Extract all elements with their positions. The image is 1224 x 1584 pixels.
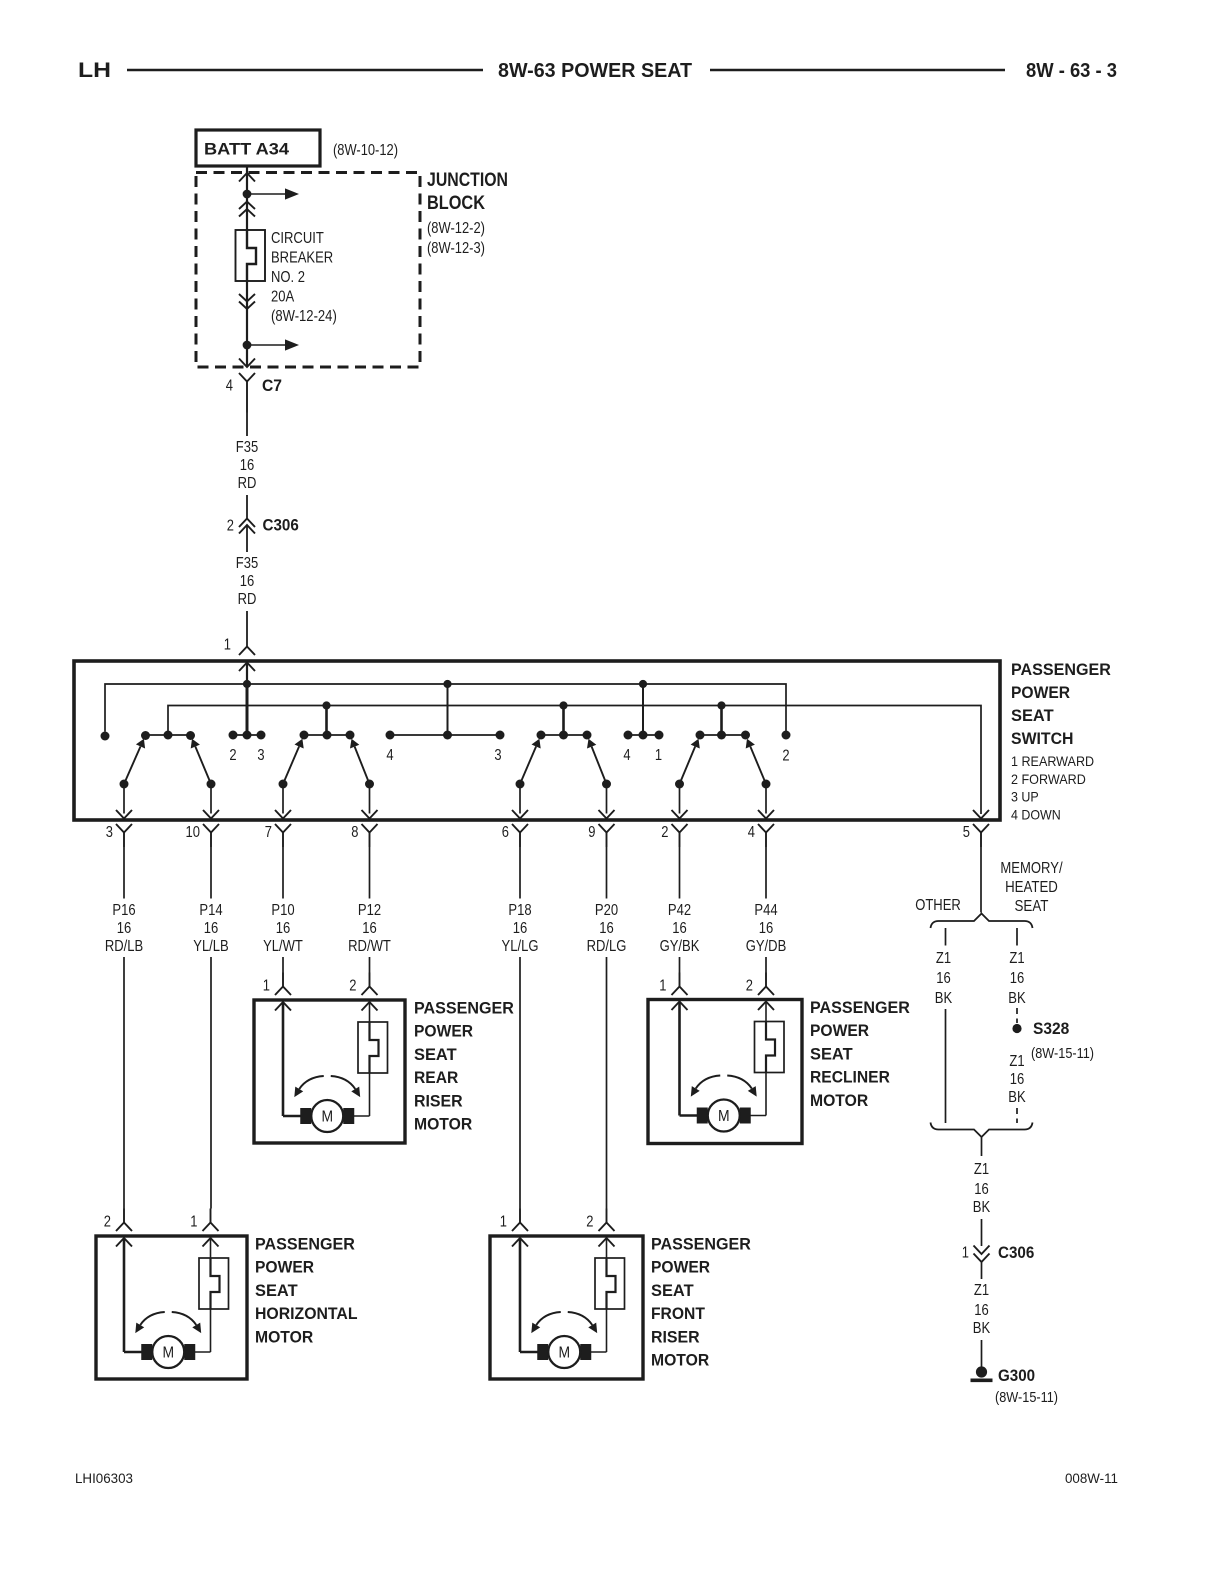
svg-text:OTHER: OTHER: [915, 897, 961, 914]
double chevron connector (junction block top): [239, 202, 255, 210]
svg-text:2 FORWARD: 2 FORWARD: [1011, 771, 1086, 787]
bus tap to contact 2-3 trio: [246, 684, 249, 735]
bus node B: [443, 680, 451, 688]
switch C wiper to pin 9: [602, 780, 611, 789]
svg-text:MEMORY/: MEMORY/: [1000, 860, 1063, 877]
svg-text:RD/WT: RD/WT: [348, 938, 391, 955]
svg-text:M: M: [718, 1108, 730, 1125]
svg-text:(8W-10-12): (8W-10-12): [333, 142, 398, 159]
svg-text:RD/LG: RD/LG: [587, 938, 627, 955]
svg-text:RD: RD: [238, 591, 257, 608]
svg-text:PASSENGER: PASSENGER: [255, 1235, 355, 1254]
wire P20 upper segment: [606, 847, 608, 899]
svg-text:P18: P18: [508, 902, 531, 919]
svg-text:LH: LH: [78, 59, 111, 82]
switch pin 9 connector: [599, 824, 615, 833]
wire P14 upper segment: [210, 847, 212, 899]
svg-text:M: M: [162, 1345, 174, 1362]
wire to C306: [246, 495, 248, 519]
svg-text:16: 16: [1010, 970, 1025, 987]
svg-text:2: 2: [227, 518, 234, 535]
svg-text:16: 16: [240, 573, 255, 590]
svg-text:P42: P42: [668, 902, 691, 919]
svg-text:Z1: Z1: [974, 1161, 989, 1178]
svg-text:SEAT: SEAT: [1011, 706, 1054, 725]
common bus node A: [322, 701, 330, 709]
switch feed bus: [105, 684, 786, 732]
svg-text:Z1: Z1: [1009, 950, 1024, 967]
svg-text:M: M: [558, 1345, 570, 1362]
svg-text:16: 16: [936, 970, 951, 987]
motor pin 2 connector: [362, 987, 378, 996]
svg-text:Z1: Z1: [1009, 1053, 1024, 1070]
arrow into BATT A34: [239, 173, 255, 182]
svg-text:16: 16: [672, 920, 687, 937]
svg-text:POWER: POWER: [255, 1258, 314, 1277]
svg-text:RISER: RISER: [414, 1091, 463, 1110]
wire to motor (long): [606, 957, 608, 1209]
passenger power seat recliner motor right wire: [765, 1002, 767, 1022]
switch pin 4 connector: [758, 824, 774, 833]
svg-text:HEATED: HEATED: [1005, 879, 1058, 896]
passenger power seat rear riser motor right wire: [369, 1002, 371, 1022]
svg-text:MOTOR: MOTOR: [810, 1091, 868, 1110]
svg-text:P20: P20: [595, 902, 619, 919]
passenger power seat rear riser motor rotation arrows: [299, 1076, 324, 1089]
passenger power seat rear riser motor circuit breaker: [358, 1022, 388, 1073]
motor pin 1 connector: [203, 1223, 219, 1232]
svg-text:16: 16: [513, 920, 528, 937]
pin 5 exit chevron: [973, 810, 989, 819]
svg-text:2: 2: [349, 978, 356, 995]
dashed wire from splice: [1016, 1108, 1018, 1123]
switch C contact row: [541, 734, 587, 736]
contact trio 4-1: [628, 734, 659, 736]
svg-text:5: 5: [963, 824, 970, 841]
wire F35 16 RD (upper): [246, 413, 248, 437]
wire Z1 other branch upper: [945, 928, 947, 946]
common bus node B: [559, 701, 567, 709]
svg-text:SEAT: SEAT: [255, 1281, 298, 1300]
svg-text:F35: F35: [236, 555, 258, 572]
svg-text:M: M: [321, 1109, 333, 1126]
passenger power seat horizontal motor box: [96, 1236, 247, 1379]
switch A wiper to pin 3: [120, 780, 129, 789]
svg-text:16: 16: [276, 920, 291, 937]
svg-text:P12: P12: [358, 902, 381, 919]
passenger power seat front riser motor circuit breaker: [595, 1258, 625, 1309]
svg-text:20A: 20A: [271, 289, 295, 306]
svg-text:008W-11: 008W-11: [1065, 1471, 1118, 1486]
svg-text:4 DOWN: 4 DOWN: [1011, 807, 1061, 823]
svg-text:1 REARWARD: 1 REARWARD: [1011, 753, 1094, 769]
wire to motor: [282, 957, 284, 973]
svg-text:7: 7: [265, 824, 272, 841]
wire to motor (long): [210, 957, 212, 1209]
svg-text:POWER: POWER: [810, 1021, 869, 1040]
switch B contact row: [304, 734, 350, 736]
svg-text:4: 4: [623, 747, 631, 764]
passenger power seat switch box: [74, 661, 1000, 820]
svg-text:GY/DB: GY/DB: [746, 938, 787, 955]
motor pin 2 connector: [758, 987, 774, 996]
switch C wiper to pin 6: [516, 780, 525, 789]
svg-text:16: 16: [204, 920, 219, 937]
bus tap to contact 4-1 trio: [642, 684, 644, 735]
wire P42 upper segment: [679, 847, 681, 899]
bus tap to contact 4-3 trio: [447, 684, 449, 735]
passenger power seat front riser motor right wire: [606, 1238, 608, 1258]
passenger power seat recliner motor rotation arrows: [696, 1076, 721, 1089]
svg-text:POWER: POWER: [414, 1022, 473, 1041]
svg-text:(8W-12-24): (8W-12-24): [271, 308, 337, 325]
passenger power seat recliner motor box: [648, 1000, 802, 1144]
svg-text:RD: RD: [238, 475, 257, 492]
svg-text:POWER: POWER: [651, 1258, 710, 1277]
svg-text:SEAT: SEAT: [810, 1044, 853, 1063]
wire P18 upper segment: [519, 847, 521, 899]
svg-text:RD/LB: RD/LB: [105, 938, 143, 955]
passenger power seat rear riser motor box: [254, 1000, 405, 1143]
svg-text:P14: P14: [199, 902, 223, 919]
passenger power seat rear riser motor pin chevrons: [275, 1002, 291, 1011]
svg-text:(8W-15-11): (8W-15-11): [1031, 1045, 1094, 1062]
svg-text:Z1: Z1: [974, 1282, 989, 1299]
connector C7: [239, 373, 255, 382]
wire pin 5 to split: [980, 847, 982, 913]
switch B wiper to pin 8: [365, 780, 374, 789]
splice S328: [1012, 1024, 1021, 1033]
passenger power seat horizontal motor left wire: [123, 1238, 126, 1352]
switch A wiper to pin 10: [207, 780, 216, 789]
passenger power seat horizontal motor rotation arrows: [140, 1312, 165, 1325]
header rule left: [127, 69, 483, 71]
wire to motor: [765, 957, 767, 973]
switch pin 8 connector: [362, 824, 378, 833]
svg-text:3 UP: 3 UP: [1011, 789, 1039, 805]
wire to G300: [981, 1340, 983, 1367]
ground G300: [976, 1366, 987, 1377]
svg-text:BLOCK: BLOCK: [427, 193, 485, 214]
junction block dashed box: [196, 173, 420, 368]
svg-text:SEAT: SEAT: [414, 1045, 457, 1064]
svg-text:P44: P44: [754, 902, 778, 919]
svg-text:16: 16: [759, 920, 774, 937]
switch D contact row: [700, 734, 746, 736]
svg-text:1: 1: [659, 978, 666, 995]
passenger power seat front riser motor motor M: [537, 1344, 548, 1360]
bus node A: [243, 680, 251, 688]
passenger power seat horizontal motor motor M: [141, 1344, 152, 1360]
svg-text:C306: C306: [263, 517, 299, 535]
battery feed box BATT A34: [196, 130, 320, 166]
svg-text:C7: C7: [262, 376, 282, 395]
wire P10 upper segment: [282, 847, 284, 899]
svg-text:SEAT: SEAT: [651, 1281, 694, 1300]
wire P44 upper segment: [765, 847, 767, 899]
svg-text:8W-63 POWER SEAT: 8W-63 POWER SEAT: [498, 60, 692, 82]
contact trio 2-3: [233, 734, 261, 736]
svg-text:16: 16: [974, 1302, 989, 1319]
svg-text:F35: F35: [236, 439, 258, 456]
svg-text:6: 6: [502, 824, 509, 841]
svg-text:JUNCTION: JUNCTION: [427, 170, 508, 191]
switch D wiper to pin 2: [675, 780, 684, 789]
switch pin 5 connector: [973, 824, 989, 833]
wire Z1 memory branch upper: [1016, 928, 1018, 946]
svg-text:16: 16: [599, 920, 614, 937]
svg-text:2: 2: [661, 824, 668, 841]
passenger power seat recliner motor motor M: [697, 1108, 708, 1124]
svg-text:1: 1: [263, 978, 270, 995]
svg-text:BK: BK: [1008, 990, 1026, 1007]
svg-text:2: 2: [229, 747, 236, 764]
svg-text:8W - 63 - 3: 8W - 63 - 3: [1026, 60, 1117, 82]
node with right arrow (top): [243, 190, 252, 199]
svg-text:Z1: Z1: [936, 950, 951, 967]
dashed wire to splice: [1016, 1008, 1018, 1023]
svg-text:1: 1: [655, 747, 662, 764]
svg-text:4: 4: [748, 824, 756, 841]
svg-text:1: 1: [962, 1245, 969, 1262]
passenger power seat recliner motor left wire: [678, 1002, 681, 1116]
svg-text:REAR: REAR: [414, 1068, 458, 1087]
wire to motor: [679, 957, 681, 973]
switch B wiper to pin 7: [279, 780, 288, 789]
arrow at junction block exit: [239, 359, 255, 368]
common tap switch C: [562, 706, 565, 736]
circuit breaker NO. 2 20A: [236, 230, 266, 281]
passenger power seat horizontal motor right wire: [210, 1238, 212, 1258]
svg-text:MOTOR: MOTOR: [651, 1351, 709, 1370]
svg-text:YL/WT: YL/WT: [263, 938, 303, 955]
passenger power seat front riser motor rotation arrows: [536, 1312, 561, 1325]
svg-text:MOTOR: MOTOR: [255, 1327, 313, 1346]
svg-text:16: 16: [1010, 1071, 1025, 1088]
svg-text:PASSENGER: PASSENGER: [810, 998, 910, 1017]
svg-text:2: 2: [104, 1214, 111, 1231]
svg-text:SEAT: SEAT: [1015, 898, 1049, 915]
svg-text:CIRCUIT: CIRCUIT: [271, 230, 324, 247]
node with right arrow (bottom): [243, 341, 252, 350]
svg-text:(8W-12-3): (8W-12-3): [427, 240, 485, 257]
wire below merge: [981, 1137, 983, 1156]
svg-text:C306: C306: [998, 1244, 1034, 1262]
passenger power seat recliner motor circuit breaker: [755, 1022, 785, 1073]
merge brace (bottom): [931, 1123, 1033, 1138]
svg-text:SWITCH: SWITCH: [1011, 729, 1074, 748]
svg-text:LHI06303: LHI06303: [75, 1471, 133, 1486]
connector C306 (pin 2): [239, 519, 255, 528]
common tap switch D: [720, 706, 723, 736]
switch D wiper to pin 4: [762, 780, 771, 789]
svg-text:P10: P10: [271, 902, 295, 919]
wire P12 upper segment: [369, 847, 371, 899]
svg-text:2: 2: [586, 1214, 593, 1231]
svg-text:BK: BK: [935, 990, 953, 1007]
svg-text:HORIZONTAL: HORIZONTAL: [255, 1304, 358, 1323]
switch A contact row: [146, 734, 191, 736]
switch pin 1 connector: [239, 647, 255, 656]
svg-text:RECLINER: RECLINER: [810, 1068, 890, 1087]
motor pin 1 connector: [275, 987, 291, 996]
svg-text:(8W-15-11): (8W-15-11): [995, 1389, 1058, 1406]
motor pin 1 connector: [512, 1223, 528, 1232]
svg-text:16: 16: [362, 920, 377, 937]
wire P16 upper segment: [123, 847, 125, 899]
svg-text:P16: P16: [112, 902, 135, 919]
passenger power seat rear riser motor motor M: [300, 1108, 311, 1124]
svg-text:1: 1: [190, 1214, 197, 1231]
passenger power seat recliner motor pin chevrons: [672, 1002, 688, 1011]
bus node C: [639, 680, 647, 688]
svg-text:PASSENGER: PASSENGER: [414, 999, 514, 1018]
svg-text:2: 2: [746, 978, 753, 995]
svg-text:BATT A34: BATT A34: [204, 140, 290, 159]
switch pin 10 connector: [203, 824, 219, 833]
svg-text:BK: BK: [1008, 1089, 1026, 1106]
svg-text:16: 16: [240, 457, 255, 474]
svg-text:GY/BK: GY/BK: [660, 938, 700, 955]
passenger power seat front riser motor box: [490, 1236, 643, 1379]
connector C306 (pin 1): [974, 1246, 990, 1255]
switch pin 7 connector: [275, 824, 291, 833]
stationary contact (far left): [101, 732, 110, 741]
svg-text:FRONT: FRONT: [651, 1304, 705, 1323]
svg-text:4: 4: [386, 747, 394, 764]
passenger power seat rear riser motor left wire: [282, 1002, 285, 1116]
svg-text:(8W-12-2): (8W-12-2): [427, 220, 485, 237]
passenger power seat horizontal motor pin chevrons: [116, 1238, 132, 1247]
wire BATT A34 to circuit breaker: [246, 166, 248, 230]
contact trio 4-3: [390, 734, 500, 736]
svg-text:PASSENGER: PASSENGER: [651, 1235, 751, 1254]
motor pin 2 connector: [599, 1223, 615, 1232]
svg-text:3: 3: [257, 747, 264, 764]
svg-text:10: 10: [186, 824, 201, 841]
wire to switch pin 1: [246, 611, 248, 647]
wire to C306: [981, 1219, 983, 1246]
svg-text:4: 4: [226, 378, 234, 395]
svg-text:2: 2: [782, 748, 789, 765]
double chevron connector (below breaker): [239, 294, 255, 302]
svg-text:BK: BK: [973, 1199, 991, 1216]
wire Z1 other branch: [945, 1009, 947, 1123]
wire breaker to junction block bottom: [246, 281, 248, 367]
svg-text:RISER: RISER: [651, 1327, 700, 1346]
header rule right: [710, 69, 1005, 71]
motor pin 2 connector: [116, 1223, 132, 1232]
motor pin 1 connector: [672, 987, 688, 996]
stationary contact 2 (far right): [782, 731, 791, 740]
svg-text:9: 9: [588, 824, 595, 841]
svg-text:YL/LG: YL/LG: [502, 938, 539, 955]
switch pin 6 connector: [512, 824, 528, 833]
switch common bus to pin 5: [168, 706, 981, 815]
passenger power seat front riser motor pin chevrons: [512, 1238, 528, 1247]
passenger power seat horizontal motor circuit breaker: [199, 1258, 229, 1309]
common tap switch B: [325, 706, 328, 736]
svg-text:3: 3: [106, 824, 113, 841]
switch pin 3 connector: [116, 824, 132, 833]
svg-text:BK: BK: [973, 1320, 991, 1337]
svg-text:NO. 2: NO. 2: [271, 269, 305, 286]
switch pin 2 connector: [672, 824, 688, 833]
svg-text:G300: G300: [998, 1367, 1035, 1385]
passenger power seat front riser motor left wire: [519, 1238, 522, 1352]
wire to motor (long): [519, 957, 521, 1209]
svg-text:YL/LB: YL/LB: [193, 938, 229, 955]
wire to motor (long): [123, 957, 125, 1209]
svg-text:8: 8: [351, 824, 358, 841]
wire to motor: [369, 957, 371, 973]
svg-text:1: 1: [224, 637, 231, 654]
svg-text:POWER: POWER: [1011, 683, 1070, 702]
svg-text:1: 1: [500, 1214, 507, 1231]
svg-text:MOTOR: MOTOR: [414, 1115, 472, 1134]
svg-text:S328: S328: [1033, 1020, 1069, 1038]
svg-text:16: 16: [974, 1181, 989, 1198]
svg-text:16: 16: [117, 920, 132, 937]
split brace (top): [931, 914, 1033, 929]
svg-text:BREAKER: BREAKER: [271, 250, 333, 267]
svg-text:3: 3: [494, 747, 501, 764]
switch pin 1 entry chevron: [239, 663, 255, 672]
common bus node C: [717, 701, 725, 709]
svg-text:PASSENGER: PASSENGER: [1011, 660, 1111, 679]
